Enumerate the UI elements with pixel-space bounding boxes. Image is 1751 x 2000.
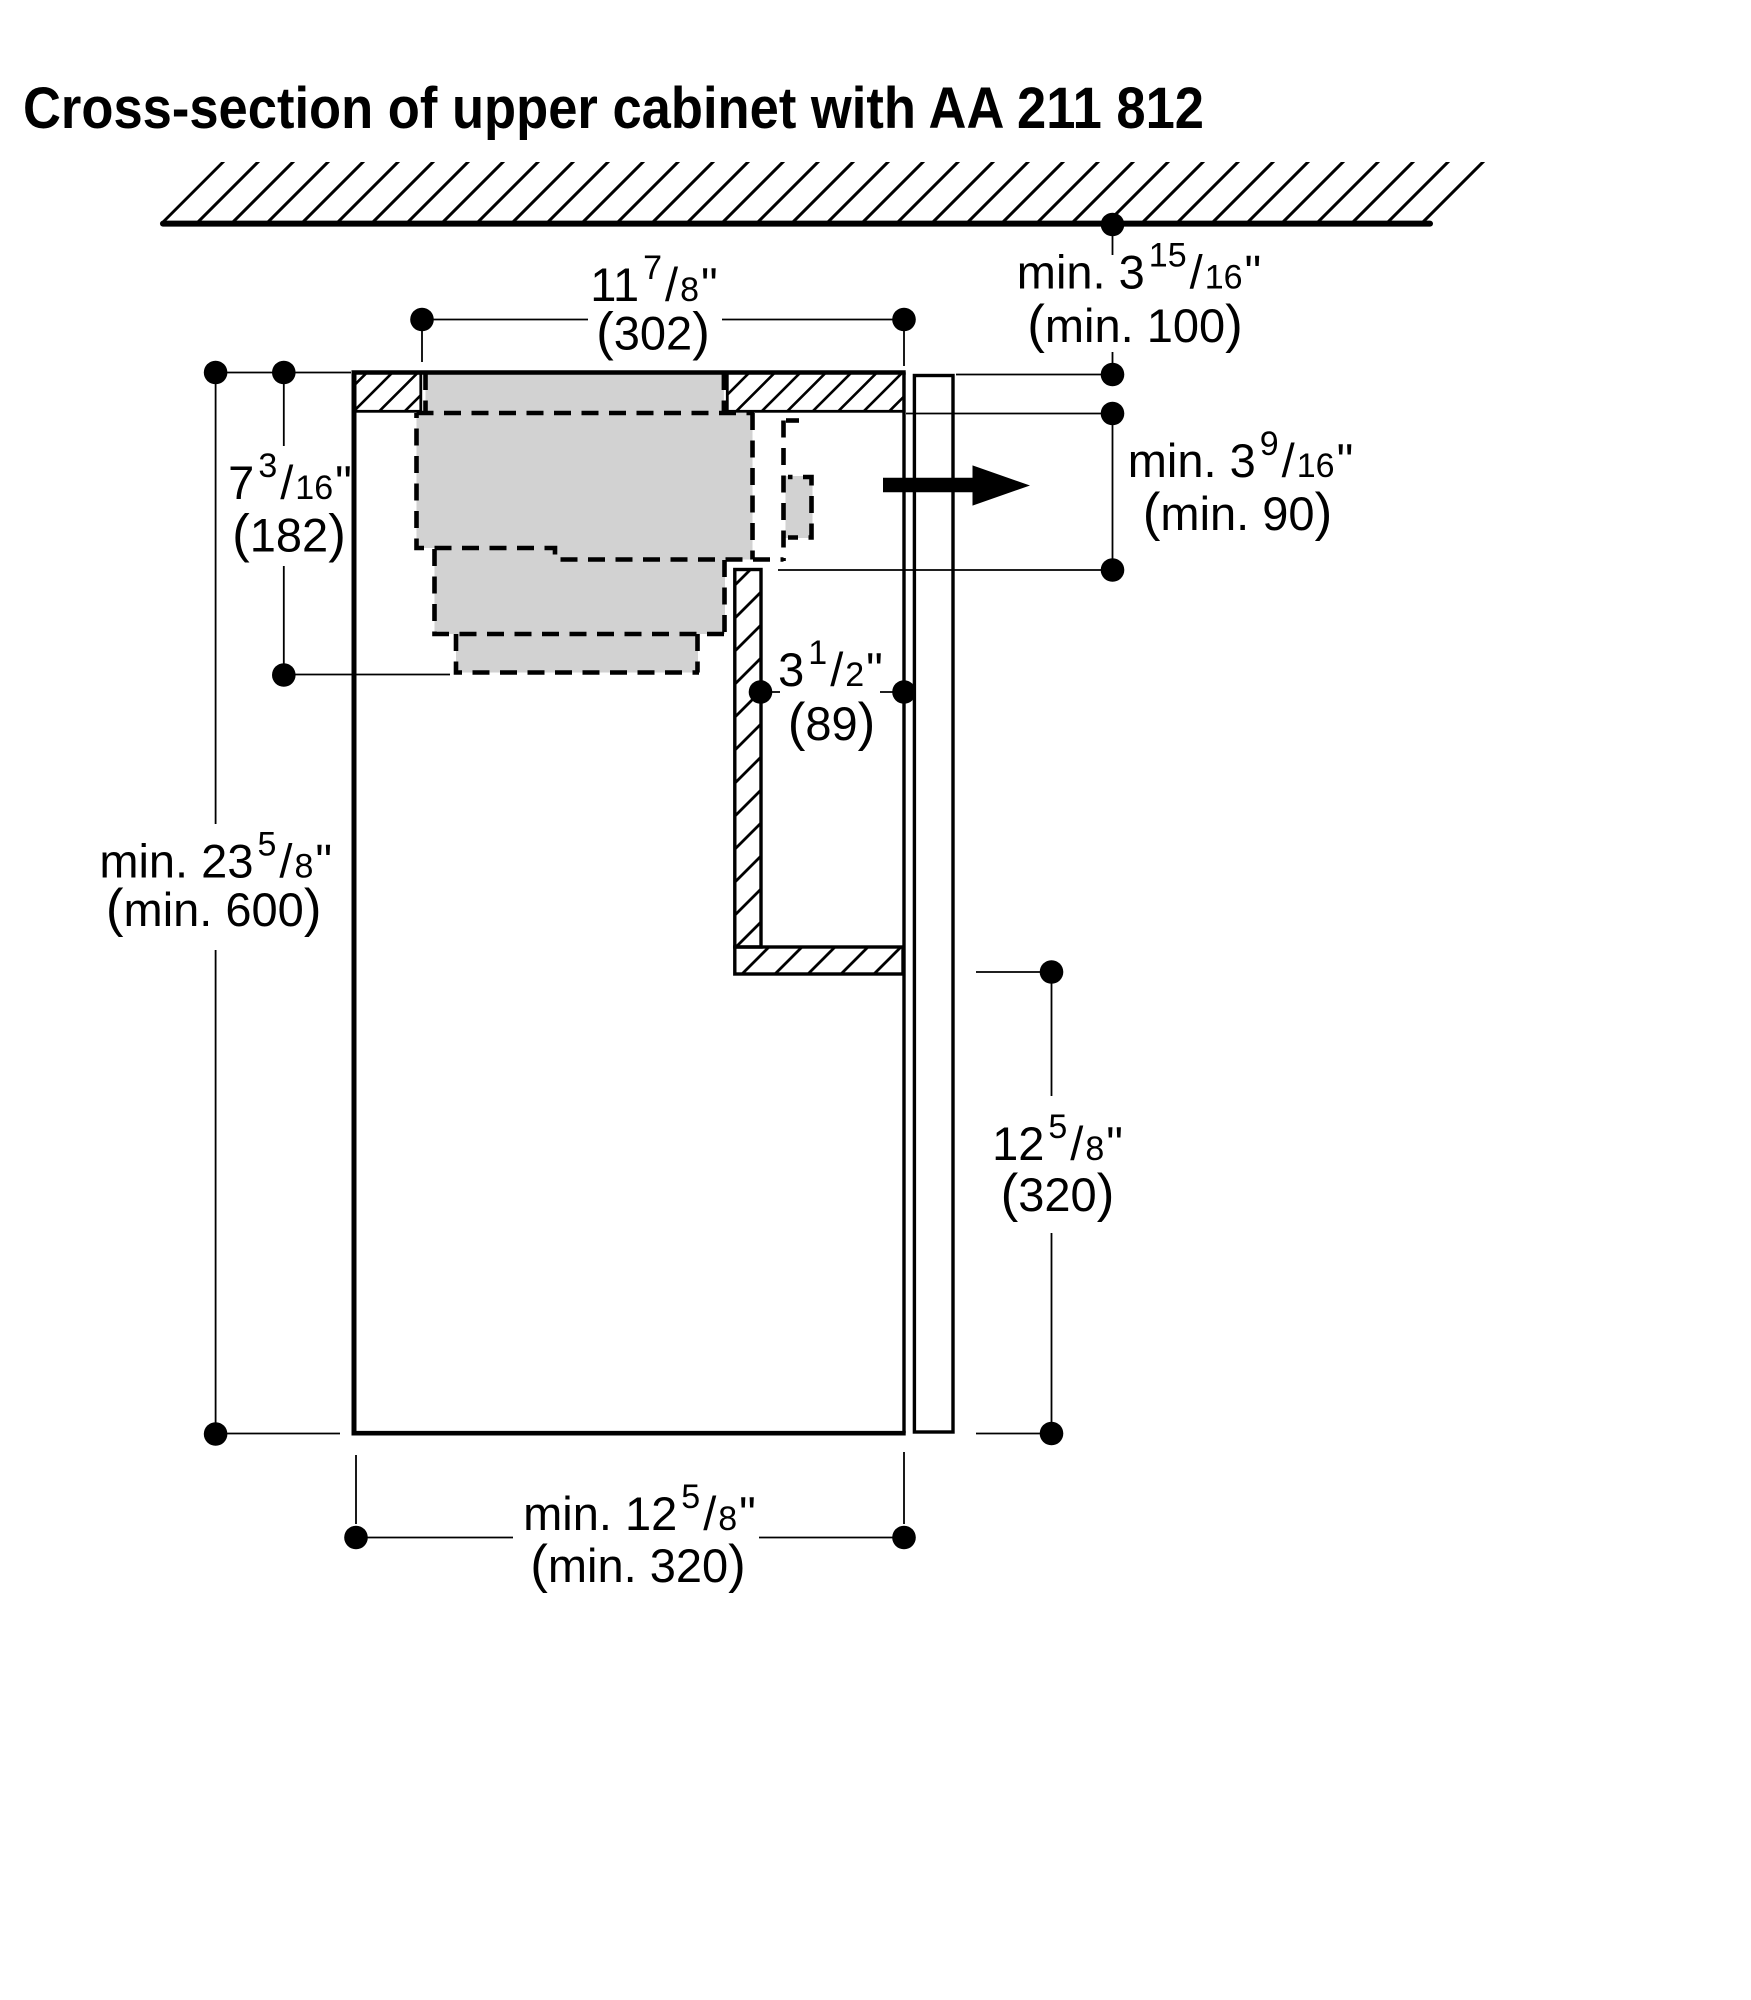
svg-text:(min. 90): (min. 90) [1143,483,1332,542]
svg-text:(320): (320) [1001,1164,1115,1223]
svg-text:(89): (89) [788,693,876,752]
dim 302: dots [410,308,434,332]
dashed outline: main body left + bottom steps [417,413,784,560]
dim min600: vertical line [215,384,217,824]
dashed outline: duct vertical [781,421,786,562]
dashed outline: top flange left edge [423,373,428,411]
dim min90: bottom dot + connector [778,569,1113,571]
dim min320: extension lines [355,1455,357,1524]
dim 89: left dot + tick [761,691,781,693]
dim min320: line [356,1537,513,1539]
dim 302: line [422,319,588,321]
dim min90: vertical line [1112,414,1114,571]
dashed outline: small duct block [788,477,812,538]
dim min320: dots [344,1526,368,1550]
appliance gray top flange [426,372,724,414]
dim min600: bottom dot + connector [216,1433,340,1435]
dashed outline: bottom step [456,634,699,673]
dim 302: extension ticks [421,331,423,362]
dashed outline: main body right edge [750,413,755,560]
cabinet right wall [902,372,905,1433]
dashed outline: bottom step right edge [695,634,700,673]
inner shelf (hatched) [735,947,903,974]
ceiling hatch band [160,162,1489,223]
dashed outline: middle step right edge [722,560,727,634]
dashed outline: main body top [417,411,755,416]
svg-text:Cross-section of upper cabinet: Cross-section of upper cabinet with AA 2… [23,76,1204,141]
appliance gray main body [417,413,753,560]
appliance gray middle step [435,548,726,634]
dim min100: lower dot + connector [956,374,1113,376]
dim 320: top dot + connector [976,971,1052,973]
svg-text:31/2": 31/2" [778,634,883,696]
dim 320: vertical line [1051,972,1053,1096]
svg-text:(302): (302) [596,303,710,362]
top panel right (hatched) [727,373,904,412]
cabinet bottom line [352,1431,906,1436]
dim min90: top dot + connector [906,413,1113,415]
svg-text:(min. 600): (min. 600) [106,879,322,938]
dim 89: right dot + tick [880,691,904,693]
cabinet left wall [352,373,357,1434]
svg-text:(min. 100): (min. 100) [1027,295,1243,354]
inner vertical partition (hatched) [735,570,761,948]
door panel [914,376,953,1433]
cabinet top line [352,370,906,375]
appliance gray small duct block [786,476,813,538]
dashed outline: middle step [435,549,727,634]
ceiling line [163,221,1430,227]
dim 182: bottom dot + connector [284,674,450,676]
dim 320: bottom dot + connector [976,1433,1052,1435]
appliance gray bottom step [456,634,698,673]
dashed outline: top flange right edge [722,373,727,411]
dim min100: dot on ceiling [1101,213,1125,237]
top panel left (hatched) [355,373,421,412]
svg-text:(min. 320): (min. 320) [530,1535,746,1594]
dim min100: vertical line [1112,225,1114,256]
svg-text:(182): (182) [232,505,346,564]
dashed outline: duct top notch [786,418,799,423]
dim 182: vertical line [283,384,285,446]
dim 182: top dots + line [216,372,351,374]
exhaust arrow [883,465,1030,505]
